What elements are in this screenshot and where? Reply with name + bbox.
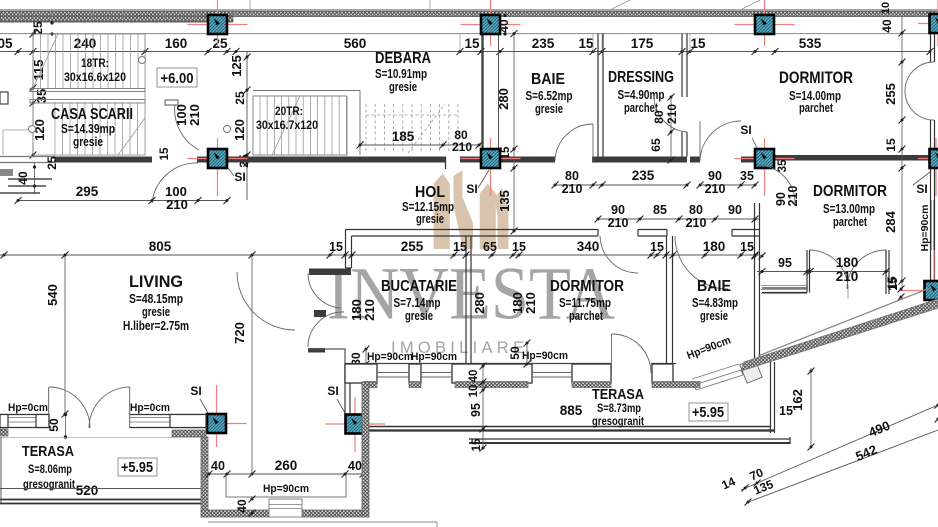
svg-text:85: 85 xyxy=(653,203,667,217)
svg-text:340: 340 xyxy=(577,239,600,254)
svg-text:210: 210 xyxy=(187,104,202,126)
kitchen right wall xyxy=(465,236,467,363)
arc living/hol opening xyxy=(237,272,295,330)
svg-text:S=8.06mp: S=8.06mp xyxy=(28,462,72,476)
svg-text:Hp=90cm: Hp=90cm xyxy=(919,205,931,252)
dim 720 xyxy=(251,255,253,474)
svg-text:90: 90 xyxy=(728,203,742,217)
stair break diagonals xyxy=(33,34,58,88)
svg-text:DORMITOR: DORMITOR xyxy=(550,278,624,295)
svg-text:284: 284 xyxy=(883,210,898,232)
dim 25 wall thickness dots xyxy=(50,21,53,24)
dimension chain top row xyxy=(0,51,930,53)
svg-text:280: 280 xyxy=(496,88,511,110)
svg-text:180: 180 xyxy=(703,239,726,254)
top exterior wall hatched band (right, single) xyxy=(233,11,938,16)
column C2 xyxy=(481,15,500,34)
svg-text:SI: SI xyxy=(740,123,751,137)
svg-text:25: 25 xyxy=(212,36,228,51)
level marker +6.00 xyxy=(157,68,197,87)
marker circles xyxy=(29,126,36,133)
door arc dressing xyxy=(654,96,687,132)
svg-text:gresie: gresie xyxy=(142,305,170,319)
svg-text:120: 120 xyxy=(232,119,247,141)
svg-text:parchet: parchet xyxy=(569,309,604,323)
svg-text:15: 15 xyxy=(886,277,900,291)
red crosshair C10 xyxy=(187,423,247,425)
column C4 xyxy=(930,14,938,33)
stair 2 block xyxy=(253,96,347,155)
red crosshair C2 xyxy=(461,24,521,26)
svg-text:40: 40 xyxy=(211,459,225,473)
watermark logo mark (tan chevrons) xyxy=(434,170,509,249)
hatched wall right of terasa1 xyxy=(201,437,208,517)
svg-text:80: 80 xyxy=(652,110,666,124)
top wall inner face line xyxy=(0,33,938,35)
terrace2 outer line xyxy=(469,438,790,440)
svg-text:+5.95: +5.95 xyxy=(121,460,153,476)
kitchen west wall band xyxy=(309,269,351,276)
dim 30 xyxy=(365,349,367,364)
cut stubs above top wall xyxy=(429,0,431,10)
baie2 right wall xyxy=(754,203,756,364)
svg-text:gresogranit: gresogranit xyxy=(592,414,644,428)
svg-text:885: 885 xyxy=(560,403,583,418)
svg-text:50: 50 xyxy=(47,418,61,432)
svg-text:180: 180 xyxy=(836,255,859,270)
svg-text:95: 95 xyxy=(778,256,792,270)
svg-text:210: 210 xyxy=(523,292,538,314)
svg-text:260: 260 xyxy=(275,458,298,473)
slant junction pier xyxy=(740,359,762,384)
svg-text:S=14.39mp: S=14.39mp xyxy=(61,122,115,136)
wall end cap at 446 xyxy=(445,157,447,170)
svg-text:S=48.15mp: S=48.15mp xyxy=(129,291,183,306)
svg-text:SI: SI xyxy=(190,384,201,398)
svg-text:S=6.52mp: S=6.52mp xyxy=(526,89,573,103)
level marker +5.95 b xyxy=(689,403,728,421)
kitchen top wall jog xyxy=(345,230,347,269)
svg-text:DRESSING: DRESSING xyxy=(608,69,674,86)
red crosshair C3 xyxy=(735,24,795,26)
red crosshair C7 xyxy=(735,158,795,160)
svg-text:540: 540 xyxy=(45,284,60,306)
svg-text:S=4.90mp: S=4.90mp xyxy=(618,88,665,102)
svg-text:210: 210 xyxy=(608,216,629,230)
recess outline xyxy=(226,473,346,497)
svg-text:40: 40 xyxy=(880,19,894,33)
svg-text:235: 235 xyxy=(532,36,555,51)
dim 162 xyxy=(810,368,812,447)
svg-text:210: 210 xyxy=(705,182,726,196)
svg-text:SI: SI xyxy=(234,170,245,184)
top exterior wall hatched band (left, double) xyxy=(0,11,233,16)
svg-text:LIVING: LIVING xyxy=(129,272,183,291)
svg-text:HOL: HOL xyxy=(415,184,445,201)
svg-text:15: 15 xyxy=(453,240,467,254)
svg-text:Hp=90cm: Hp=90cm xyxy=(411,351,457,363)
svg-text:15: 15 xyxy=(578,36,594,51)
door arc baie2 xyxy=(675,236,728,289)
svg-text:15: 15 xyxy=(329,240,343,254)
terrace2 inner edge double line xyxy=(366,426,771,428)
dim 50 xyxy=(526,343,528,364)
dim 540 xyxy=(64,255,66,414)
svg-text:10: 10 xyxy=(468,385,480,398)
debara boundary line xyxy=(253,90,360,92)
svg-text:S=8.73mp: S=8.73mp xyxy=(597,401,641,415)
svg-text:S=13.00mp: S=13.00mp xyxy=(823,202,875,216)
dim row A y=185 xyxy=(555,184,687,186)
dressing interior dims xyxy=(670,97,672,160)
slant inner line xyxy=(758,288,930,356)
svg-text:185: 185 xyxy=(392,129,415,144)
baie1 left wall face xyxy=(498,34,500,157)
svg-text:805: 805 xyxy=(149,239,172,254)
dressing right wall xyxy=(681,34,683,97)
kitchen/hol top wall xyxy=(346,229,599,231)
column C1 xyxy=(208,15,227,34)
svg-text:560: 560 xyxy=(344,36,367,51)
window sills left xyxy=(8,417,36,419)
slant window baie2 xyxy=(694,370,741,385)
extension lines row1 xyxy=(144,34,146,52)
svg-text:210: 210 xyxy=(836,269,859,284)
svg-text:CASA SCARII: CASA SCARII xyxy=(51,106,133,123)
column C8 xyxy=(930,149,938,168)
dim 40 left xyxy=(34,163,36,194)
svg-text:gresie: gresie xyxy=(535,102,563,116)
right edge dims xyxy=(901,17,903,290)
hatch under piers xyxy=(0,429,8,436)
svg-text:40: 40 xyxy=(16,171,30,185)
svg-text:H.liber=2.75m: H.liber=2.75m xyxy=(123,319,189,333)
svg-text:65: 65 xyxy=(483,240,497,254)
svg-text:gresie: gresie xyxy=(416,212,444,226)
svg-text:05: 05 xyxy=(0,36,13,51)
svg-text:gresie: gresie xyxy=(389,80,417,94)
svg-text:DORMITOR: DORMITOR xyxy=(813,183,887,200)
svg-text:gresie: gresie xyxy=(700,309,728,323)
svg-text:SI: SI xyxy=(466,182,477,196)
svg-text:Hp=90cm: Hp=90cm xyxy=(263,483,309,495)
svg-text:25: 25 xyxy=(45,156,59,170)
svg-text:parchet: parchet xyxy=(799,101,834,115)
red crosshair C1 xyxy=(188,24,248,26)
svg-text:gresie: gresie xyxy=(405,309,433,323)
svg-text:Hp=90cm: Hp=90cm xyxy=(367,351,413,363)
svg-text:15: 15 xyxy=(500,146,512,159)
svg-text:160: 160 xyxy=(165,36,188,51)
svg-text:S=7.14mp: S=7.14mp xyxy=(394,296,441,310)
svg-text:15: 15 xyxy=(690,36,706,51)
svg-text:40: 40 xyxy=(468,370,480,383)
kitchen double door stub xyxy=(314,310,326,317)
svg-text:520: 520 xyxy=(76,483,99,498)
door arc dormitor3 xyxy=(600,236,638,273)
dashed stairs under debara xyxy=(366,104,458,153)
door arc casa scarii lower (to living) xyxy=(152,163,198,203)
red crosshair C5 xyxy=(188,158,248,160)
svg-text:35: 35 xyxy=(740,169,754,183)
svg-text:175: 175 xyxy=(631,36,654,51)
terasa1 boundary lines xyxy=(0,488,207,490)
svg-text:parchet: parchet xyxy=(833,215,868,229)
casa scarii stair outline xyxy=(33,34,145,155)
dim 15 wall ticks xyxy=(752,253,759,260)
baie1/dressing wall xyxy=(597,34,599,157)
column C11 xyxy=(346,415,365,434)
svg-text:210: 210 xyxy=(665,104,679,124)
debara right wall xyxy=(481,34,483,157)
column C10 xyxy=(207,414,226,433)
svg-text:255: 255 xyxy=(883,83,898,105)
svg-text:80: 80 xyxy=(689,203,703,217)
left dims kitchen corner xyxy=(482,364,484,448)
svg-text:720: 720 xyxy=(232,322,247,344)
svg-text:90: 90 xyxy=(611,203,625,217)
red crosshair C11 xyxy=(325,423,385,425)
svg-text:DORMITOR: DORMITOR xyxy=(779,69,853,87)
svg-text:210: 210 xyxy=(686,216,707,230)
right wing wall xyxy=(775,155,930,161)
svg-text:135: 135 xyxy=(497,190,512,212)
svg-text:S=4.83mp: S=4.83mp xyxy=(692,296,738,310)
window right wall xyxy=(931,200,933,250)
svg-text:40: 40 xyxy=(235,499,249,513)
dim 185 and 80 xyxy=(360,144,481,146)
svg-text:235: 235 xyxy=(632,168,655,183)
svg-text:210: 210 xyxy=(786,186,800,207)
svg-text:15: 15 xyxy=(650,240,664,254)
svg-text:15: 15 xyxy=(512,240,526,254)
kitchen door arc lower xyxy=(308,312,344,347)
svg-text:gresie: gresie xyxy=(73,135,103,149)
kitchen door sill wall xyxy=(308,348,325,353)
terrace top faint line xyxy=(0,436,207,438)
bottom outer faint line xyxy=(208,521,437,523)
svg-text:18TR:: 18TR: xyxy=(81,58,109,70)
balcony double door top right xyxy=(905,62,934,91)
svg-text:210: 210 xyxy=(452,140,472,154)
svg-text:295: 295 xyxy=(76,184,99,199)
french doors living xyxy=(48,387,50,428)
svg-text:15: 15 xyxy=(159,147,171,160)
svg-text:25: 25 xyxy=(233,91,247,105)
svg-text:Hp=90cm: Hp=90cm xyxy=(522,350,568,362)
dim row B y=219 xyxy=(598,218,760,220)
dim 95/180 xyxy=(757,271,890,273)
mid vertical dimension x=247 xyxy=(246,52,248,201)
svg-text:35: 35 xyxy=(34,89,49,103)
column C7 xyxy=(755,149,774,168)
door arc dormitor1 xyxy=(700,121,741,161)
svg-text:535: 535 xyxy=(799,36,822,51)
red crosshair C9 xyxy=(900,290,938,292)
red crosshair C6 xyxy=(461,158,521,160)
svg-text:S=11.75mp: S=11.75mp xyxy=(559,296,611,310)
south wall sills xyxy=(377,372,409,374)
svg-text:30x16.6x120: 30x16.6x120 xyxy=(64,72,126,84)
recess dims xyxy=(205,473,368,475)
left shaft box xyxy=(0,92,8,104)
south wall hatch band xyxy=(363,382,377,388)
svg-text:+6.00: +6.00 xyxy=(161,70,194,87)
top exterior wall: outer line xyxy=(0,9,938,11)
svg-text:210: 210 xyxy=(166,197,188,212)
svg-text:35: 35 xyxy=(777,159,789,172)
svg-text:65: 65 xyxy=(649,138,663,152)
svg-text:255: 255 xyxy=(401,239,424,254)
door arc dormitor2 entry xyxy=(757,165,795,203)
hatched bottom band xyxy=(201,510,269,517)
svg-text:210: 210 xyxy=(562,182,583,196)
svg-text:280: 280 xyxy=(472,292,487,314)
svg-text:BUCATARIE: BUCATARIE xyxy=(381,278,457,295)
recess window xyxy=(269,499,302,517)
slant hatched band xyxy=(741,299,938,371)
svg-text:10: 10 xyxy=(880,2,892,14)
kitchen lower left wall xyxy=(344,363,346,414)
svg-text:+5.95: +5.95 xyxy=(692,405,724,421)
svg-text:BAIE: BAIE xyxy=(697,278,731,295)
svg-text:TERASA: TERASA xyxy=(22,443,74,460)
svg-text:90: 90 xyxy=(708,169,722,183)
dim row below casa scarii xyxy=(18,200,227,202)
red crosshair C4 xyxy=(918,23,938,25)
baie2 top wall xyxy=(732,229,760,231)
svg-text:210: 210 xyxy=(362,299,377,321)
window dormitor2 terrace xyxy=(761,285,807,287)
svg-text:Hp=0cm: Hp=0cm xyxy=(130,402,170,414)
column C5 xyxy=(208,149,227,168)
left edge steps xyxy=(0,169,13,176)
svg-text:15: 15 xyxy=(471,438,483,451)
svg-text:20TR:: 20TR: xyxy=(275,106,303,118)
south wall top line xyxy=(345,363,611,365)
svg-text:SI: SI xyxy=(327,384,338,398)
left vertical dimension x=33 xyxy=(32,34,34,155)
svg-text:S=10.91mp: S=10.91mp xyxy=(375,67,427,81)
svg-text:162: 162 xyxy=(790,389,805,411)
dormitor2 south wall xyxy=(762,287,807,289)
stair landing xyxy=(30,89,145,92)
door arc casa scarii upper xyxy=(175,104,199,150)
svg-text:Hp=0cm: Hp=0cm xyxy=(8,402,48,414)
living south wall outline xyxy=(0,414,49,416)
red crosshair C8 xyxy=(918,158,938,160)
svg-text:DEBARA: DEBARA xyxy=(375,50,431,67)
svg-text:40: 40 xyxy=(348,459,362,473)
svg-text:50: 50 xyxy=(508,346,522,360)
dorm3/baie2 partition xyxy=(666,236,668,363)
main horizontal wall (filled) xyxy=(55,157,152,163)
svg-text:25: 25 xyxy=(31,21,45,35)
wall segment between doors xyxy=(638,229,667,231)
piers xyxy=(0,415,8,428)
svg-text:BAIE: BAIE xyxy=(531,71,565,88)
dim 50 living xyxy=(65,414,67,437)
svg-text:40: 40 xyxy=(497,19,511,33)
terasa2 door xyxy=(611,334,613,373)
level marker +5.95 a xyxy=(118,458,157,476)
svg-text:15: 15 xyxy=(884,138,898,152)
svg-text:30x16.7x120: 30x16.7x120 xyxy=(256,120,318,132)
column C3 xyxy=(755,15,774,34)
hatched wall right of recess xyxy=(362,382,369,517)
top exterior wall inner line left xyxy=(0,21,233,23)
kitchen door arc upper xyxy=(308,273,341,308)
svg-text:15: 15 xyxy=(464,36,480,51)
vertical dim x=514 xyxy=(513,34,515,231)
door arc baie1 xyxy=(555,124,593,161)
column C9 xyxy=(925,281,938,300)
column C6 xyxy=(481,149,500,168)
south wall piers xyxy=(345,364,377,383)
stair treads upper flight xyxy=(41,34,139,155)
dim row C y=255 xyxy=(0,254,760,256)
svg-text:SI: SI xyxy=(916,182,927,196)
diagonal dims xyxy=(741,405,938,490)
svg-text:125: 125 xyxy=(229,55,244,77)
right exterior wall xyxy=(930,34,932,62)
svg-text:15: 15 xyxy=(740,240,754,254)
svg-text:95: 95 xyxy=(469,403,483,417)
svg-text:80: 80 xyxy=(565,169,579,183)
wall left stub outline xyxy=(0,156,55,158)
double door dormitor2 xyxy=(809,250,848,289)
terrace2 right edge xyxy=(770,362,772,433)
